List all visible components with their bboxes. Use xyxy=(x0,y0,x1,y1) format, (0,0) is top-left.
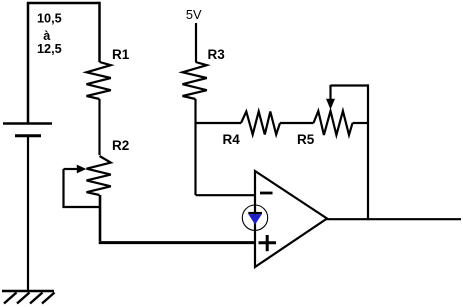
wire: inverting input xyxy=(196,194,256,196)
wire: top rail down to R1 xyxy=(98,2,101,62)
wire: op-amp output xyxy=(326,218,461,220)
current source (internal, blue arrow) xyxy=(242,205,267,230)
wire: battery to ground xyxy=(27,137,29,291)
wire: node to R4 xyxy=(196,122,242,124)
wire: 5V to R3 xyxy=(195,23,197,62)
wire: feedback top xyxy=(331,84,369,86)
svg-text:12,5: 12,5 xyxy=(37,42,62,56)
svg-text:R3: R3 xyxy=(208,47,226,62)
wire: R2 down to corner xyxy=(99,195,102,241)
R2 wiper arrow xyxy=(64,165,87,174)
op-amp plus sign xyxy=(259,235,277,251)
label: source value 10,5 à 12,5 xyxy=(37,12,62,57)
wire: feedback vertical xyxy=(367,84,369,219)
svg-text:R5: R5 xyxy=(297,132,315,147)
svg-text:10,5: 10,5 xyxy=(37,12,62,26)
svg-text:R1: R1 xyxy=(112,47,130,62)
wire: top rail xyxy=(27,2,100,5)
R5 wiper arrow xyxy=(326,85,335,110)
potentiometer R5 body xyxy=(314,111,353,135)
svg-text:5V: 5V xyxy=(186,7,202,22)
svg-text:à: à xyxy=(43,29,51,43)
wire: R1 to R2 xyxy=(98,99,100,155)
wire: R2 wiper loop xyxy=(64,169,101,207)
wire: battery top to top rail xyxy=(27,3,30,123)
wire: R5 to feedback vertical xyxy=(353,122,369,124)
svg-text:R2: R2 xyxy=(112,138,129,153)
op-amp U1 xyxy=(255,171,327,267)
wire: non-inverting input (thick) xyxy=(99,241,256,244)
ground xyxy=(2,291,55,304)
wire: R3 down to inverting node xyxy=(194,99,196,195)
potentiometer R2 body xyxy=(87,156,111,195)
resistor R4 xyxy=(241,112,280,135)
resistor R3 xyxy=(183,62,207,99)
battery B1 xyxy=(3,124,52,136)
svg-text:R4: R4 xyxy=(223,132,241,147)
resistor R1 xyxy=(87,62,111,99)
wire: R4 to R5 xyxy=(280,122,314,124)
op-amp minus sign xyxy=(260,192,273,195)
